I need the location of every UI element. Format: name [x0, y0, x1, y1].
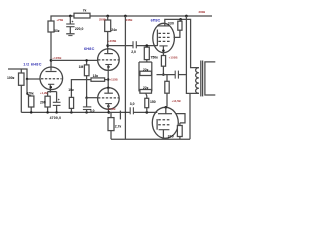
resistor 10k — [69, 97, 73, 108]
svg-text:3,0: 3,0 — [90, 109, 95, 113]
resistor 22k upper — [140, 71, 152, 75]
capacitor 3,0 (right, grid output lower) — [129, 107, 131, 114]
resistor 330 lower — [179, 123, 181, 126]
triode V1 1/2 6N8S — [40, 67, 63, 90]
svg-text:1/2 6Н8С: 1/2 6Н8С — [23, 63, 41, 67]
node V1 anode / coupling — [50, 59, 53, 62]
V2 cathode — [105, 64, 112, 66]
V2 anode bar — [104, 53, 113, 55]
svg-text:300В: 300В — [199, 10, 206, 14]
cathode resistor upper — [161, 56, 165, 67]
node rail-220cap — [69, 15, 72, 18]
svg-text:2,7к: 2,7к — [115, 124, 122, 128]
node cathode junction — [162, 73, 165, 76]
svg-text:750к: 750к — [151, 55, 159, 59]
wire cathode row — [157, 74, 176, 76]
svg-text:3,0: 3,0 — [130, 102, 135, 106]
svg-text:470к: 470к — [26, 92, 34, 96]
capacitor 220,0 electrolytic — [69, 16, 71, 24]
wire B+ down — [186, 16, 199, 93]
V3 grid — [87, 97, 98, 99]
cathode upper output — [159, 45, 167, 47]
node V2 anode — [106, 44, 109, 47]
resistor 150k — [146, 93, 147, 98]
bottom wire — [111, 138, 190, 140]
grids lower output — [156, 119, 158, 130]
svg-text:150: 150 — [150, 100, 156, 104]
output tube lower 6P3S — [152, 107, 178, 138]
node gnd 3,0 — [85, 111, 88, 114]
capacitor 3,0 (left, grid V3) — [86, 98, 88, 107]
node gnd 4700 — [55, 111, 58, 114]
transformer secondary — [205, 62, 215, 95]
node 1M top — [85, 59, 88, 62]
svg-text:+75В: +75В — [56, 18, 63, 22]
capacitor 4700,0 electrolytic — [56, 92, 58, 103]
svg-text:330: 330 — [168, 135, 174, 139]
V3 anode bar — [104, 92, 113, 94]
node rail-dropline — [124, 15, 127, 18]
svg-text:22к: 22к — [143, 68, 149, 72]
V2 grid — [98, 59, 119, 61]
transformer primary winding — [196, 68, 199, 94]
wire cathode V3 to 3,0 cap right — [109, 111, 130, 113]
svg-text:+1,2В: +1,2В — [40, 91, 48, 95]
ground rail — [21, 111, 109, 113]
svg-text:4700,0: 4700,0 — [50, 116, 62, 120]
node V1 cathode — [49, 91, 51, 93]
OPT primary lead bottom riser — [189, 93, 191, 139]
vertical feed line — [124, 16, 126, 139]
output tube upper 6P3S — [153, 23, 175, 52]
resistor 470k — [27, 79, 31, 96]
node anode/screen res — [179, 18, 182, 21]
svg-text:200: 200 — [40, 101, 46, 105]
svg-text:+2,5В: +2,5В — [107, 107, 116, 111]
svg-text:2,0: 2,0 — [131, 50, 136, 54]
V3 cathode — [105, 103, 112, 105]
svg-text:+105В: +105В — [52, 56, 61, 60]
svg-text:6П3С: 6П3С — [151, 18, 161, 22]
V1 grid (dashed) — [41, 78, 62, 80]
resistor 200 — [47, 92, 49, 97]
svg-text:1М: 1М — [79, 65, 84, 69]
node gnd 200 — [46, 111, 49, 114]
svg-text:100к: 100к — [7, 76, 15, 80]
svg-text:245В: 245В — [126, 18, 133, 22]
svg-text:+: + — [72, 20, 74, 24]
svg-text:10к: 10к — [68, 88, 74, 92]
resistor 27k — [110, 112, 112, 117]
node lower anode — [164, 106, 167, 109]
node rail-opt — [185, 15, 188, 18]
node gnd 470k — [30, 111, 33, 114]
short bar — [119, 111, 121, 120]
screen jog lower — [176, 114, 185, 123]
V1 anode bar — [46, 71, 57, 73]
cathode lower output — [159, 129, 170, 131]
anode bar upper — [158, 25, 170, 27]
resistor 33k — [48, 21, 54, 32]
anode bar lower — [158, 113, 172, 115]
wire 33k to anode of V1 — [50, 32, 52, 71]
node divider bottom — [145, 111, 148, 114]
capacitor cathode bypass — [174, 71, 176, 79]
triode V3 (6N8S lower) — [98, 88, 120, 110]
node V3 cathode — [107, 111, 110, 114]
resistor 1M — [86, 60, 88, 65]
wire cathode jog — [48, 91, 57, 93]
svg-text:220,0: 220,0 — [75, 27, 84, 31]
resistor 100k — [20, 69, 22, 73]
svg-text:+: + — [58, 98, 60, 102]
wire anode node to 1M/grid of V2 — [51, 59, 98, 61]
resistor 330 upper (screen) — [180, 19, 182, 21]
node rail-24k — [106, 15, 109, 18]
resistor 13k — [71, 80, 91, 98]
triode V2 (6N8S upper) — [98, 49, 120, 71]
svg-text:+115В: +115В — [110, 77, 118, 81]
svg-text:+14,5В: +14,5В — [172, 99, 181, 103]
svg-text:330: 330 — [168, 21, 174, 25]
resistor 7k (series in rail) — [74, 13, 90, 18]
node gnd 10k — [70, 111, 73, 114]
svg-text:33к: 33к — [54, 29, 60, 33]
svg-text:6Н8С: 6Н8С — [84, 47, 95, 51]
svg-text:24к: 24к — [111, 28, 117, 32]
divider ladder — [146, 60, 148, 62]
resistor 22k lower — [140, 90, 152, 94]
anode lead to OPT — [165, 19, 199, 67]
ground (220,0) — [66, 33, 74, 35]
V1 cathode — [48, 83, 54, 85]
svg-text:22к: 22к — [143, 86, 149, 90]
svg-text:7к: 7к — [83, 9, 87, 13]
svg-text:+205В: +205В — [108, 39, 116, 43]
node V3 anode top — [107, 86, 110, 89]
capacitor 2,0 — [108, 45, 133, 47]
resistor 24k — [107, 16, 109, 20]
svg-text:13к: 13к — [93, 74, 99, 78]
svg-text:250В: 250В — [99, 18, 106, 22]
wire B+ rail — [51, 16, 212, 21]
resistor link between output tubes — [166, 75, 168, 82]
input lead — [8, 69, 40, 79]
node V2 cathode / 13k — [107, 78, 110, 81]
resistor 750k — [144, 47, 149, 59]
transformer core — [200, 61, 202, 97]
node grid upper output — [145, 44, 148, 47]
svg-text:+155В: +155В — [169, 55, 178, 59]
node input grid — [26, 78, 29, 81]
node 1M bottom / V3 grid — [85, 96, 88, 99]
grids upper output — [156, 30, 158, 46]
